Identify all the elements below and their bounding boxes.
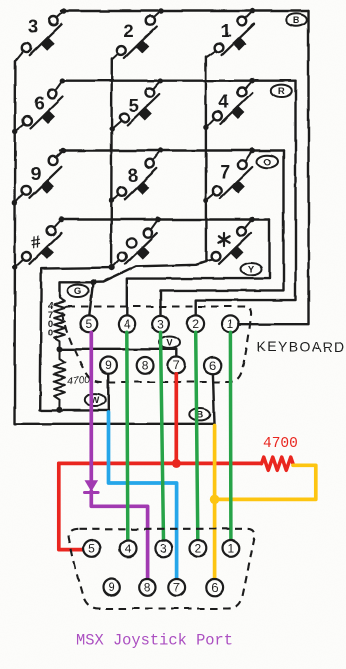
- key switch S9: [15, 148, 66, 203]
- svg-text:7: 7: [220, 161, 230, 182]
- svg-text:5: 5: [86, 317, 93, 331]
- junction: R1/R2 node: [57, 346, 63, 352]
- key switch S#: [15, 217, 65, 268]
- svg-text:6: 6: [35, 92, 45, 113]
- svg-text:7: 7: [173, 581, 180, 595]
- svg-text:2: 2: [195, 542, 202, 556]
- joystick pin 6: [206, 579, 223, 596]
- svg-text:9: 9: [105, 359, 112, 373]
- key label 9: [31, 163, 41, 184]
- keyboard pin 8: [137, 357, 154, 374]
- wire: keyboard pin 6 lead down: [213, 374, 215, 424]
- key switch S5: [112, 78, 163, 129]
- resistor R2 4700 (pin7 to pin9): [54, 349, 65, 409]
- junction on left rail (key 6): [13, 128, 18, 133]
- svg-text:5: 5: [89, 542, 96, 556]
- keyboard pin 3: [152, 315, 169, 332]
- key label 0: [127, 238, 136, 247]
- svg-text:4700: 4700: [263, 436, 298, 452]
- wire: purple from keyboard pin 5: [89, 333, 93, 482]
- wire: riser to keyboard pin 5: [89, 282, 93, 315]
- wire: R1/R2 node to keyboard pin 7: [60, 349, 177, 357]
- svg-text:3: 3: [157, 317, 164, 331]
- net label O (row3 wire colour): [257, 155, 278, 168]
- wire: purple diode to joystick pin 8: [91, 491, 147, 579]
- svg-text:6: 6: [210, 359, 217, 373]
- keyboard pin 9: [100, 357, 117, 374]
- svg-text:9: 9: [31, 163, 41, 184]
- net label Y (row4 wire colour): [241, 263, 262, 276]
- value label 4700 (red): [263, 436, 298, 452]
- svg-text:O: O: [264, 157, 271, 168]
- junction on left rail (key 9): [12, 200, 17, 205]
- net label W (pin9 wire colour): [85, 394, 106, 407]
- wire: row1 (keys 1-2-3) wire: [62, 10, 309, 12]
- key switch S4: [206, 78, 255, 128]
- wire: green keyboard pin 2 to joystick pin 2: [196, 332, 198, 540]
- net label R (row2 wire colour): [271, 85, 292, 98]
- key label 3: [28, 16, 38, 37]
- junction on right rail (key 7): [203, 198, 208, 203]
- wire: row3 (keys 7-8-9) wire: [61, 149, 284, 151]
- key label 7: [220, 161, 230, 182]
- joystick pin 4: [120, 540, 137, 557]
- joystick pin 1: [223, 540, 240, 557]
- key switch S0: [111, 217, 161, 268]
- junction on left rail (key #): [12, 265, 17, 270]
- wire: red from keyboard pin 7: [174, 374, 178, 464]
- wire: middle column to resistor/pin9 bus: [40, 268, 111, 411]
- wire: green keyboard pin 3 to joystick pin 3: [161, 332, 164, 540]
- joystick pin 3: [155, 540, 172, 557]
- svg-text:2: 2: [192, 317, 199, 331]
- svg-text:7: 7: [173, 359, 180, 373]
- wire: row4 (keys #-0-*) wire: [60, 218, 270, 220]
- svg-text:KEYBOARD: KEYBOARD: [257, 339, 346, 355]
- key switch S2: [112, 8, 164, 59]
- key label 4: [219, 91, 230, 112]
- key label 2: [123, 20, 133, 41]
- value label 4700 (vertical, R1): [48, 301, 54, 339]
- svg-text:2: 2: [123, 20, 133, 41]
- svg-text:9: 9: [108, 581, 115, 595]
- svg-text:G: G: [74, 286, 81, 297]
- keyboard pin 2: [187, 315, 204, 332]
- joystick pin 7: [168, 579, 185, 596]
- joystick pin 2: [190, 540, 207, 557]
- junction on right rail (key 4): [203, 125, 208, 130]
- wire: red horizontal bus: [59, 462, 262, 466]
- keyboard pin 1: [222, 315, 239, 332]
- wire: middle column rail (keys 2-5-8-0): [110, 59, 113, 268]
- svg-text:1: 1: [228, 542, 235, 556]
- svg-text:1: 1: [227, 317, 234, 331]
- junction on middle rail (key 5): [109, 126, 114, 131]
- svg-text:B: B: [293, 15, 300, 26]
- wire: right column rail (keys 1-4-7-*): [205, 57, 207, 262]
- wire: pin9 bottom bus: [40, 409, 110, 411]
- svg-text:R: R: [278, 86, 285, 97]
- svg-text:4: 4: [123, 317, 130, 331]
- svg-text:3: 3: [28, 16, 38, 37]
- key label 6: [35, 92, 45, 113]
- key switch S1: [206, 8, 256, 57]
- svg-text:5: 5: [129, 94, 139, 115]
- wire: row3 descender to keyboard pin 3: [161, 151, 284, 316]
- value label 4700 (R2): [67, 374, 91, 388]
- MSX joystick port connector outline (DE-9, dashed): [69, 529, 255, 609]
- svg-text:MSX Joystick Port: MSX Joystick Port: [76, 631, 233, 649]
- wire: left column rail (keys 3-6-9-#): [15, 61, 215, 424]
- wire: cyan from keyboard pin 9 to joystick pin 7: [109, 412, 177, 579]
- net label V (pin7 wire colour): [159, 336, 180, 349]
- svg-text:3: 3: [160, 542, 167, 556]
- key label #: [30, 232, 43, 252]
- key label *: [218, 233, 229, 246]
- label KEYBOARD: [257, 339, 346, 355]
- key label 5: [129, 94, 139, 115]
- svg-text:8: 8: [144, 581, 151, 595]
- junction: yellow node: [210, 495, 220, 505]
- key label 1: [221, 20, 231, 41]
- wire: row4 descender to keyboard pin 4: [127, 220, 270, 316]
- keyboard pin 6: [205, 357, 222, 374]
- svg-text:8: 8: [128, 165, 138, 186]
- resistor R1 4700 (pin5 to pin7): [54, 298, 65, 349]
- joystick pin 8: [139, 579, 156, 596]
- keyboard connector outline (DE-9, dashed): [62, 307, 251, 383]
- svg-text:V: V: [166, 338, 173, 349]
- junction: R2 bottom / pin9 bus: [56, 407, 62, 413]
- label MSX Joystick Port: [76, 631, 233, 649]
- wire: row2 (keys 4-5-6) wire: [61, 79, 296, 81]
- joystick pin 9: [103, 579, 120, 596]
- svg-text:4: 4: [219, 91, 230, 112]
- key switch S*: [206, 217, 255, 264]
- svg-text:1: 1: [221, 20, 231, 41]
- key switch S6: [15, 78, 65, 131]
- junction: middle rail to keyboard pin 9 net: [108, 265, 114, 271]
- wire: row1 descender to keyboard pin 1: [239, 11, 309, 324]
- joystick pin 5: [84, 540, 101, 557]
- key switch S7: [206, 148, 256, 201]
- key label 8: [128, 165, 138, 186]
- diode D1 (purple): [85, 480, 99, 492]
- junction on middle rail (key 8): [109, 197, 114, 202]
- svg-text:6: 6: [211, 581, 218, 595]
- keyboard pin 5: [81, 315, 98, 332]
- wire: row2 descender to keyboard pin 2: [196, 81, 296, 316]
- svg-text:Y: Y: [248, 265, 255, 276]
- svg-text:4: 4: [125, 542, 132, 556]
- wire: green keyboard pin 4 to joystick pin 4: [127, 332, 128, 540]
- junction: pin 5 node: [90, 279, 96, 285]
- key switch S8: [112, 148, 164, 200]
- wire: pin5 node to resistor R1: [60, 282, 94, 297]
- net label B (pin6 wire colour): [189, 408, 210, 421]
- net label B (row1 wire colour): [286, 14, 307, 27]
- net label G (pin5 wire colour): [68, 285, 89, 298]
- key switch S3: [15, 8, 67, 61]
- junction: red node: [172, 459, 181, 468]
- wire: yellow from keyboard pin 6 to joystick pin 6: [213, 426, 217, 579]
- resistor R3 4700 (red zigzag): [262, 457, 294, 470]
- keyboard pin 7: [168, 357, 185, 374]
- keyboard pin 4: [118, 315, 135, 332]
- wire: right column to keyboard pin 5: [93, 262, 206, 283]
- svg-text:8: 8: [142, 359, 149, 373]
- wire: green keyboard pin 1 to joystick pin 1: [229, 332, 233, 540]
- wire: yellow loop to resistor R3: [215, 465, 316, 499]
- svg-text:0: 0: [48, 328, 53, 339]
- wire: keyboard pin 9 lead down: [107, 374, 110, 411]
- wire: red down to joystick pin 5: [59, 463, 84, 549]
